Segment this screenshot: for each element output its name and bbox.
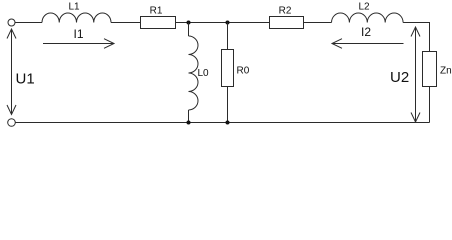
wire L1 to R1 <box>111 22 140 24</box>
wire top-left <box>15 22 42 24</box>
svg-text:R2: R2 <box>279 6 292 17</box>
svg-text:U2: U2 <box>390 69 409 86</box>
wire R1 to node B <box>176 22 270 24</box>
svg-text:I1: I1 <box>73 27 83 41</box>
svg-text:U1: U1 <box>16 71 35 88</box>
inductor L1 <box>42 13 111 23</box>
svg-text:L1: L1 <box>68 2 80 13</box>
inductor L2 <box>332 13 404 23</box>
svg-text:Zn: Zn <box>440 66 452 77</box>
bottom rail wire <box>15 122 430 124</box>
svg-text:I2: I2 <box>361 25 371 39</box>
svg-text:L0: L0 <box>198 68 210 79</box>
node B junction dot <box>226 21 230 25</box>
inductor L0 <box>189 23 199 123</box>
wire Zn to bottom rail <box>429 87 431 123</box>
terminal circle top-left <box>8 19 15 26</box>
resistor R2 <box>270 17 304 29</box>
svg-text:R0: R0 <box>237 66 250 77</box>
svg-text:R1: R1 <box>150 6 163 17</box>
impedance Zn <box>423 52 437 87</box>
resistor R0 <box>222 23 234 123</box>
junction dot bottom node B <box>226 121 230 125</box>
current arrow I1 <box>43 39 114 49</box>
junction dot bottom node A <box>187 121 191 125</box>
svg-text:L2: L2 <box>358 2 370 13</box>
terminal circle bottom-left <box>8 119 16 127</box>
current arrow I2 <box>332 39 404 49</box>
node A junction dot <box>187 21 191 25</box>
wire R2 to L2 <box>304 22 332 24</box>
wire L2 to Zn top <box>403 23 429 52</box>
voltage arrow U2 <box>411 27 420 122</box>
voltage arrow U1 <box>7 29 16 115</box>
resistor R1 <box>141 17 176 29</box>
